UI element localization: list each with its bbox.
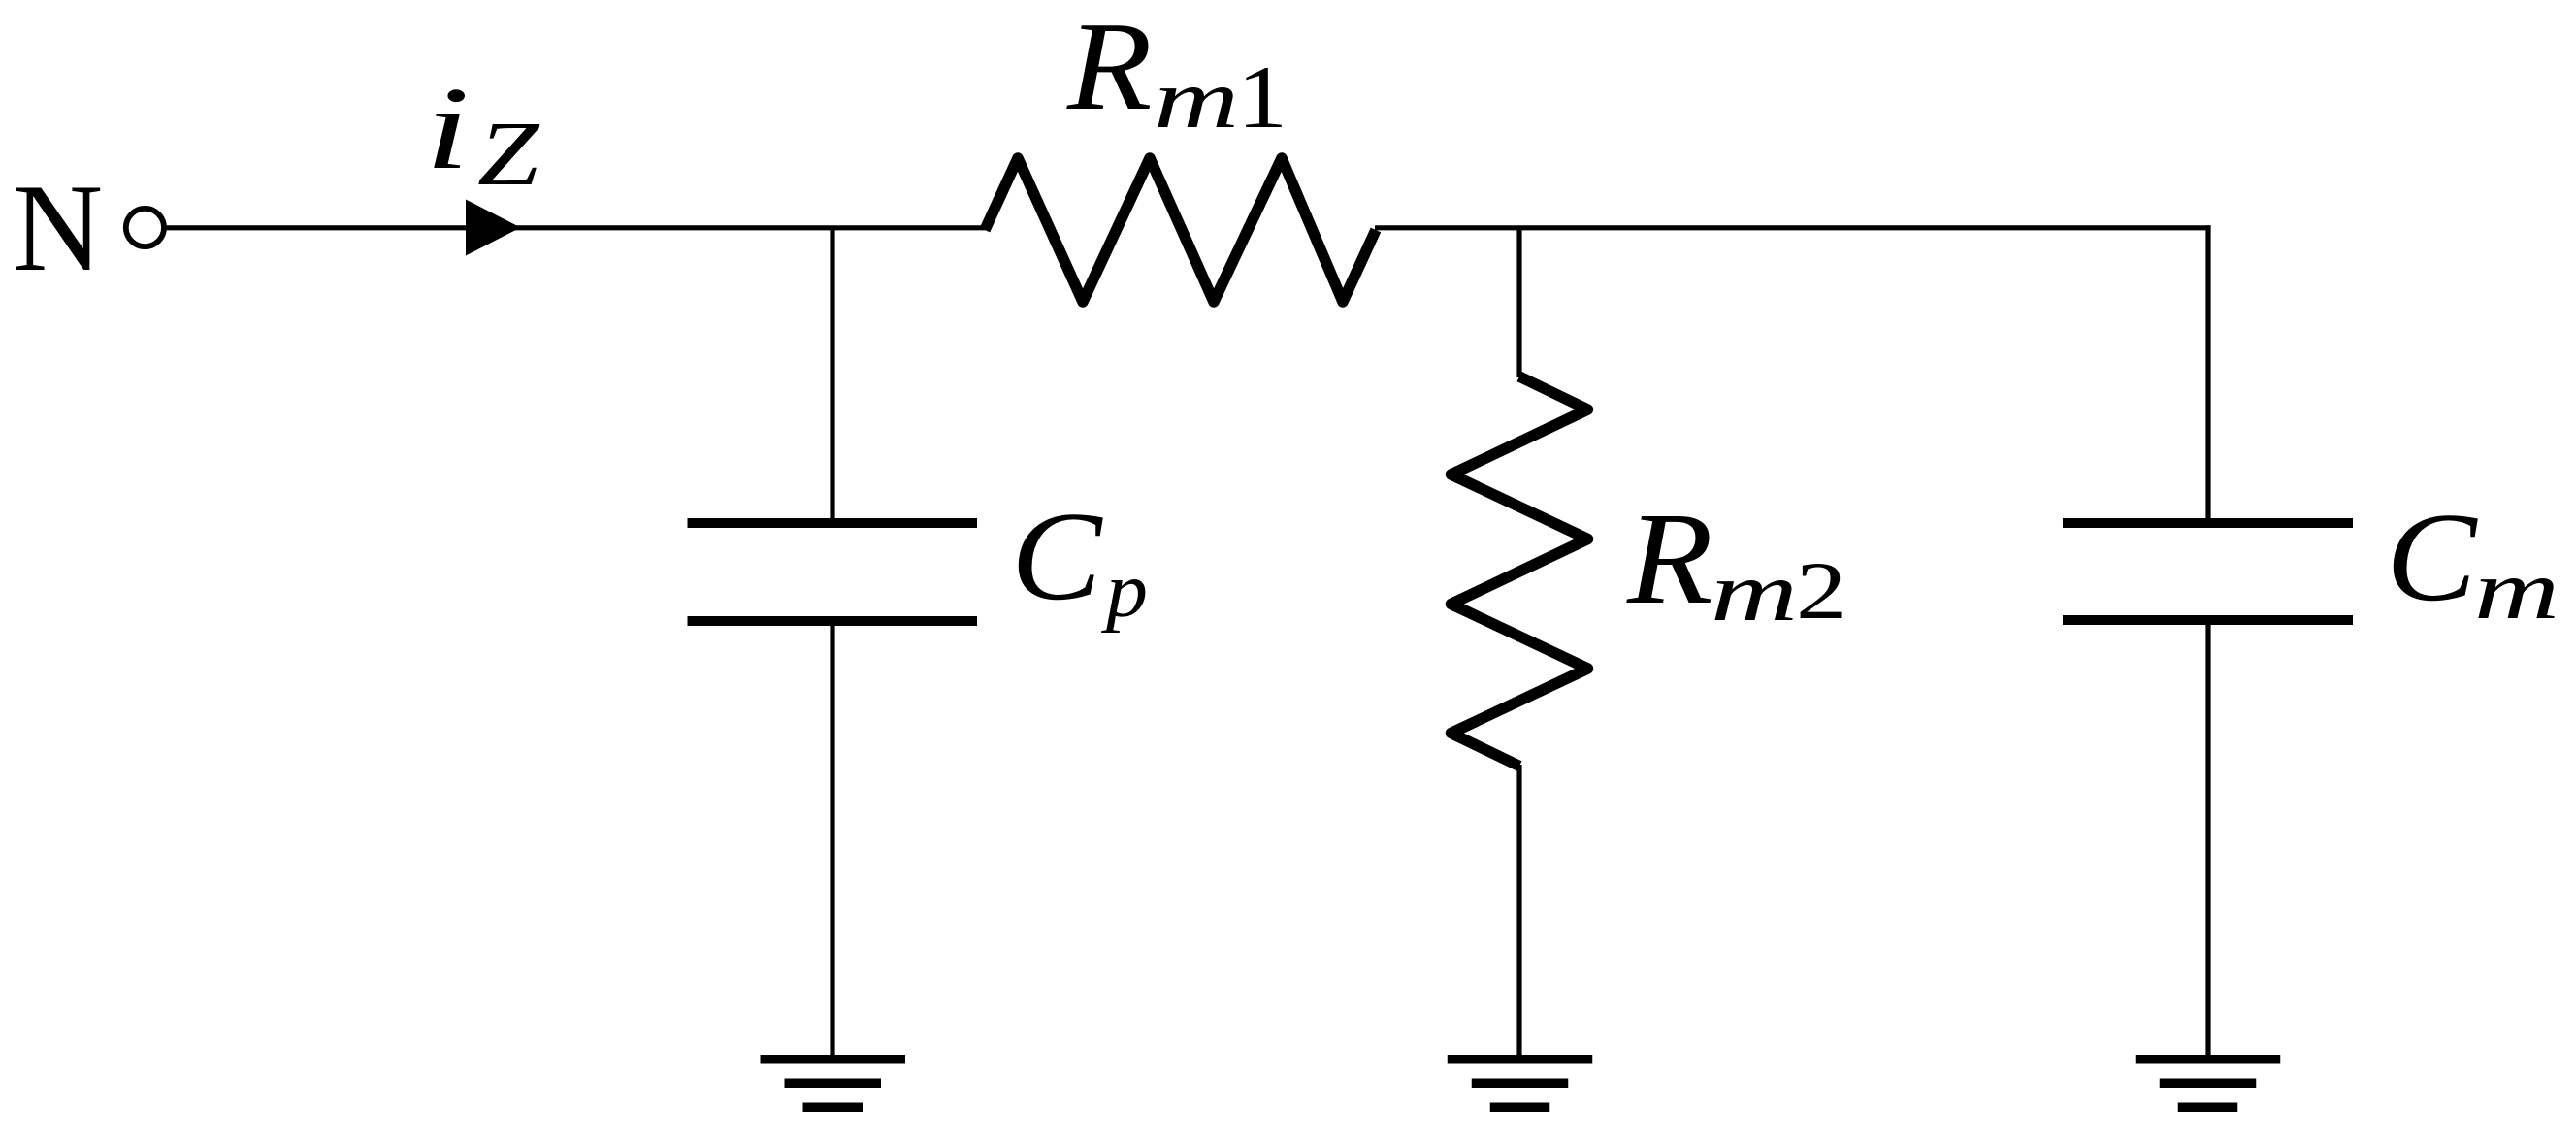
terminal open circle at node N: [126, 209, 164, 246]
wire Rm1 to corner (node B and onward): [1375, 225, 2211, 230]
resistor Rm1 (horizontal zigzag): [985, 158, 1376, 302]
wire Cp to ground: [830, 626, 834, 1057]
svg-text:C: C: [1011, 486, 1103, 627]
svg-text:R: R: [1626, 486, 1713, 632]
svg-text:C: C: [2386, 487, 2478, 628]
svg-text:m: m: [1154, 51, 1239, 146]
svg-text:N: N: [13, 158, 103, 297]
wire Rm2 to ground: [1516, 765, 1521, 1057]
svg-text:R: R: [1066, 0, 1153, 137]
node A junction wire (to Cp): [830, 228, 834, 519]
capacitor Cp top plate: [688, 518, 978, 528]
svg-text:m: m: [1711, 544, 1798, 638]
svg-text:1: 1: [1237, 48, 1288, 147]
wire down to capacitor Cm: [2205, 225, 2210, 518]
capacitor Cm bottom plate: [2063, 615, 2353, 625]
ground under Rm2: [1448, 1055, 1593, 1112]
capacitor Cm top plate: [2063, 518, 2353, 528]
capacitor Cp bottom plate: [688, 616, 978, 626]
svg-text:Z: Z: [477, 104, 541, 205]
svg-text:m: m: [2474, 542, 2560, 637]
node B junction wire down to Rm2: [1516, 228, 1521, 377]
wire Cm to ground: [2205, 625, 2210, 1057]
ground under Cm: [2136, 1055, 2281, 1112]
svg-text:p: p: [1101, 548, 1148, 634]
wire from terminal N to resistor Rm1: [167, 225, 986, 230]
ground under Cp: [761, 1055, 906, 1112]
svg-text:i: i: [425, 63, 470, 194]
current arrow iZ on wire: [466, 200, 521, 256]
resistor Rm2 (vertical zigzag): [1451, 376, 1588, 767]
svg-text:2: 2: [1796, 545, 1846, 637]
